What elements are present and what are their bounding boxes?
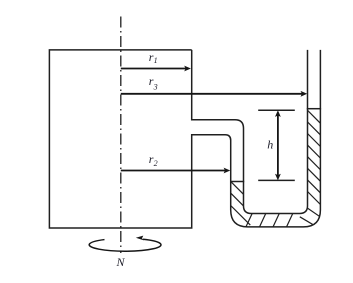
dimension r3 arrow bbox=[121, 91, 307, 97]
svg-text:3: 3 bbox=[153, 82, 158, 91]
svg-text:N: N bbox=[116, 255, 126, 269]
liquid hatching bbox=[230, 110, 321, 228]
right leg hatch bbox=[308, 110, 321, 123]
bottom hatch bbox=[246, 213, 253, 228]
left corner hatch bbox=[230, 205, 251, 226]
liquid level line, left leg bbox=[230, 181, 244, 183]
dimension r2 arrow bbox=[121, 168, 231, 174]
h dimension top tick bbox=[258, 109, 295, 111]
connecting tube top wall + U-tube inner wall bbox=[192, 50, 308, 214]
dimension r1 arrow bbox=[121, 66, 191, 72]
right corner hatch bbox=[300, 217, 318, 228]
h dimension bottom tick bbox=[258, 179, 295, 181]
h double arrow bbox=[275, 110, 281, 180]
centerline (axis of rotation) bbox=[120, 17, 122, 254]
svg-text:2: 2 bbox=[154, 159, 158, 168]
svg-text:1: 1 bbox=[154, 56, 158, 65]
rotation arrow (ellipse arc) bbox=[89, 239, 161, 251]
left leg hatch bbox=[231, 182, 244, 195]
rotation arrowhead bbox=[136, 236, 144, 241]
tank outline + U-tube outer wall bbox=[49, 50, 320, 228]
svg-text:h: h bbox=[267, 138, 273, 152]
liquid level line, right leg bbox=[307, 108, 321, 110]
